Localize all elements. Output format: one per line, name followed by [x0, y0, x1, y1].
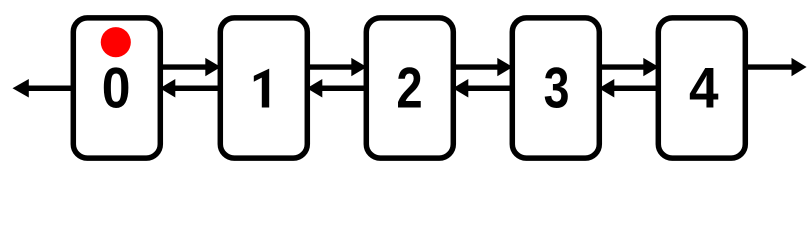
- arrow left node 1 to node 0: [160, 79, 221, 98]
- node 4 box: [658, 18, 745, 158]
- arrow right node 3 to node 4: [599, 58, 659, 76]
- node 0 box: [73, 18, 160, 158]
- svg-text:2: 2: [396, 57, 422, 120]
- arrow right node 1 to node 2: [307, 58, 367, 76]
- svg-text:4: 4: [689, 56, 719, 120]
- node 1 box: [220, 18, 307, 158]
- svg-text:0: 0: [102, 56, 131, 120]
- node 4 label: [689, 56, 719, 120]
- arrow right node 2 to node 3: [453, 58, 513, 76]
- arrow right node 0 to node 1: [160, 58, 221, 76]
- svg-text:3: 3: [544, 57, 570, 121]
- arrow left node 3 to node 2: [453, 79, 513, 98]
- node 2 label: [396, 57, 422, 120]
- arrow left node 4 to node 3: [599, 79, 659, 98]
- exit arrow right from node 4: [745, 58, 806, 76]
- exit arrow left from node 0: [13, 79, 74, 98]
- node 0 label: [102, 56, 131, 120]
- node 1 label: [254, 69, 269, 108]
- node 2 box: [366, 18, 453, 158]
- node 3 label: [544, 57, 570, 121]
- red token on node 0: [101, 27, 131, 57]
- node 3 box: [512, 18, 599, 158]
- arrow left node 2 to node 1: [307, 79, 367, 98]
